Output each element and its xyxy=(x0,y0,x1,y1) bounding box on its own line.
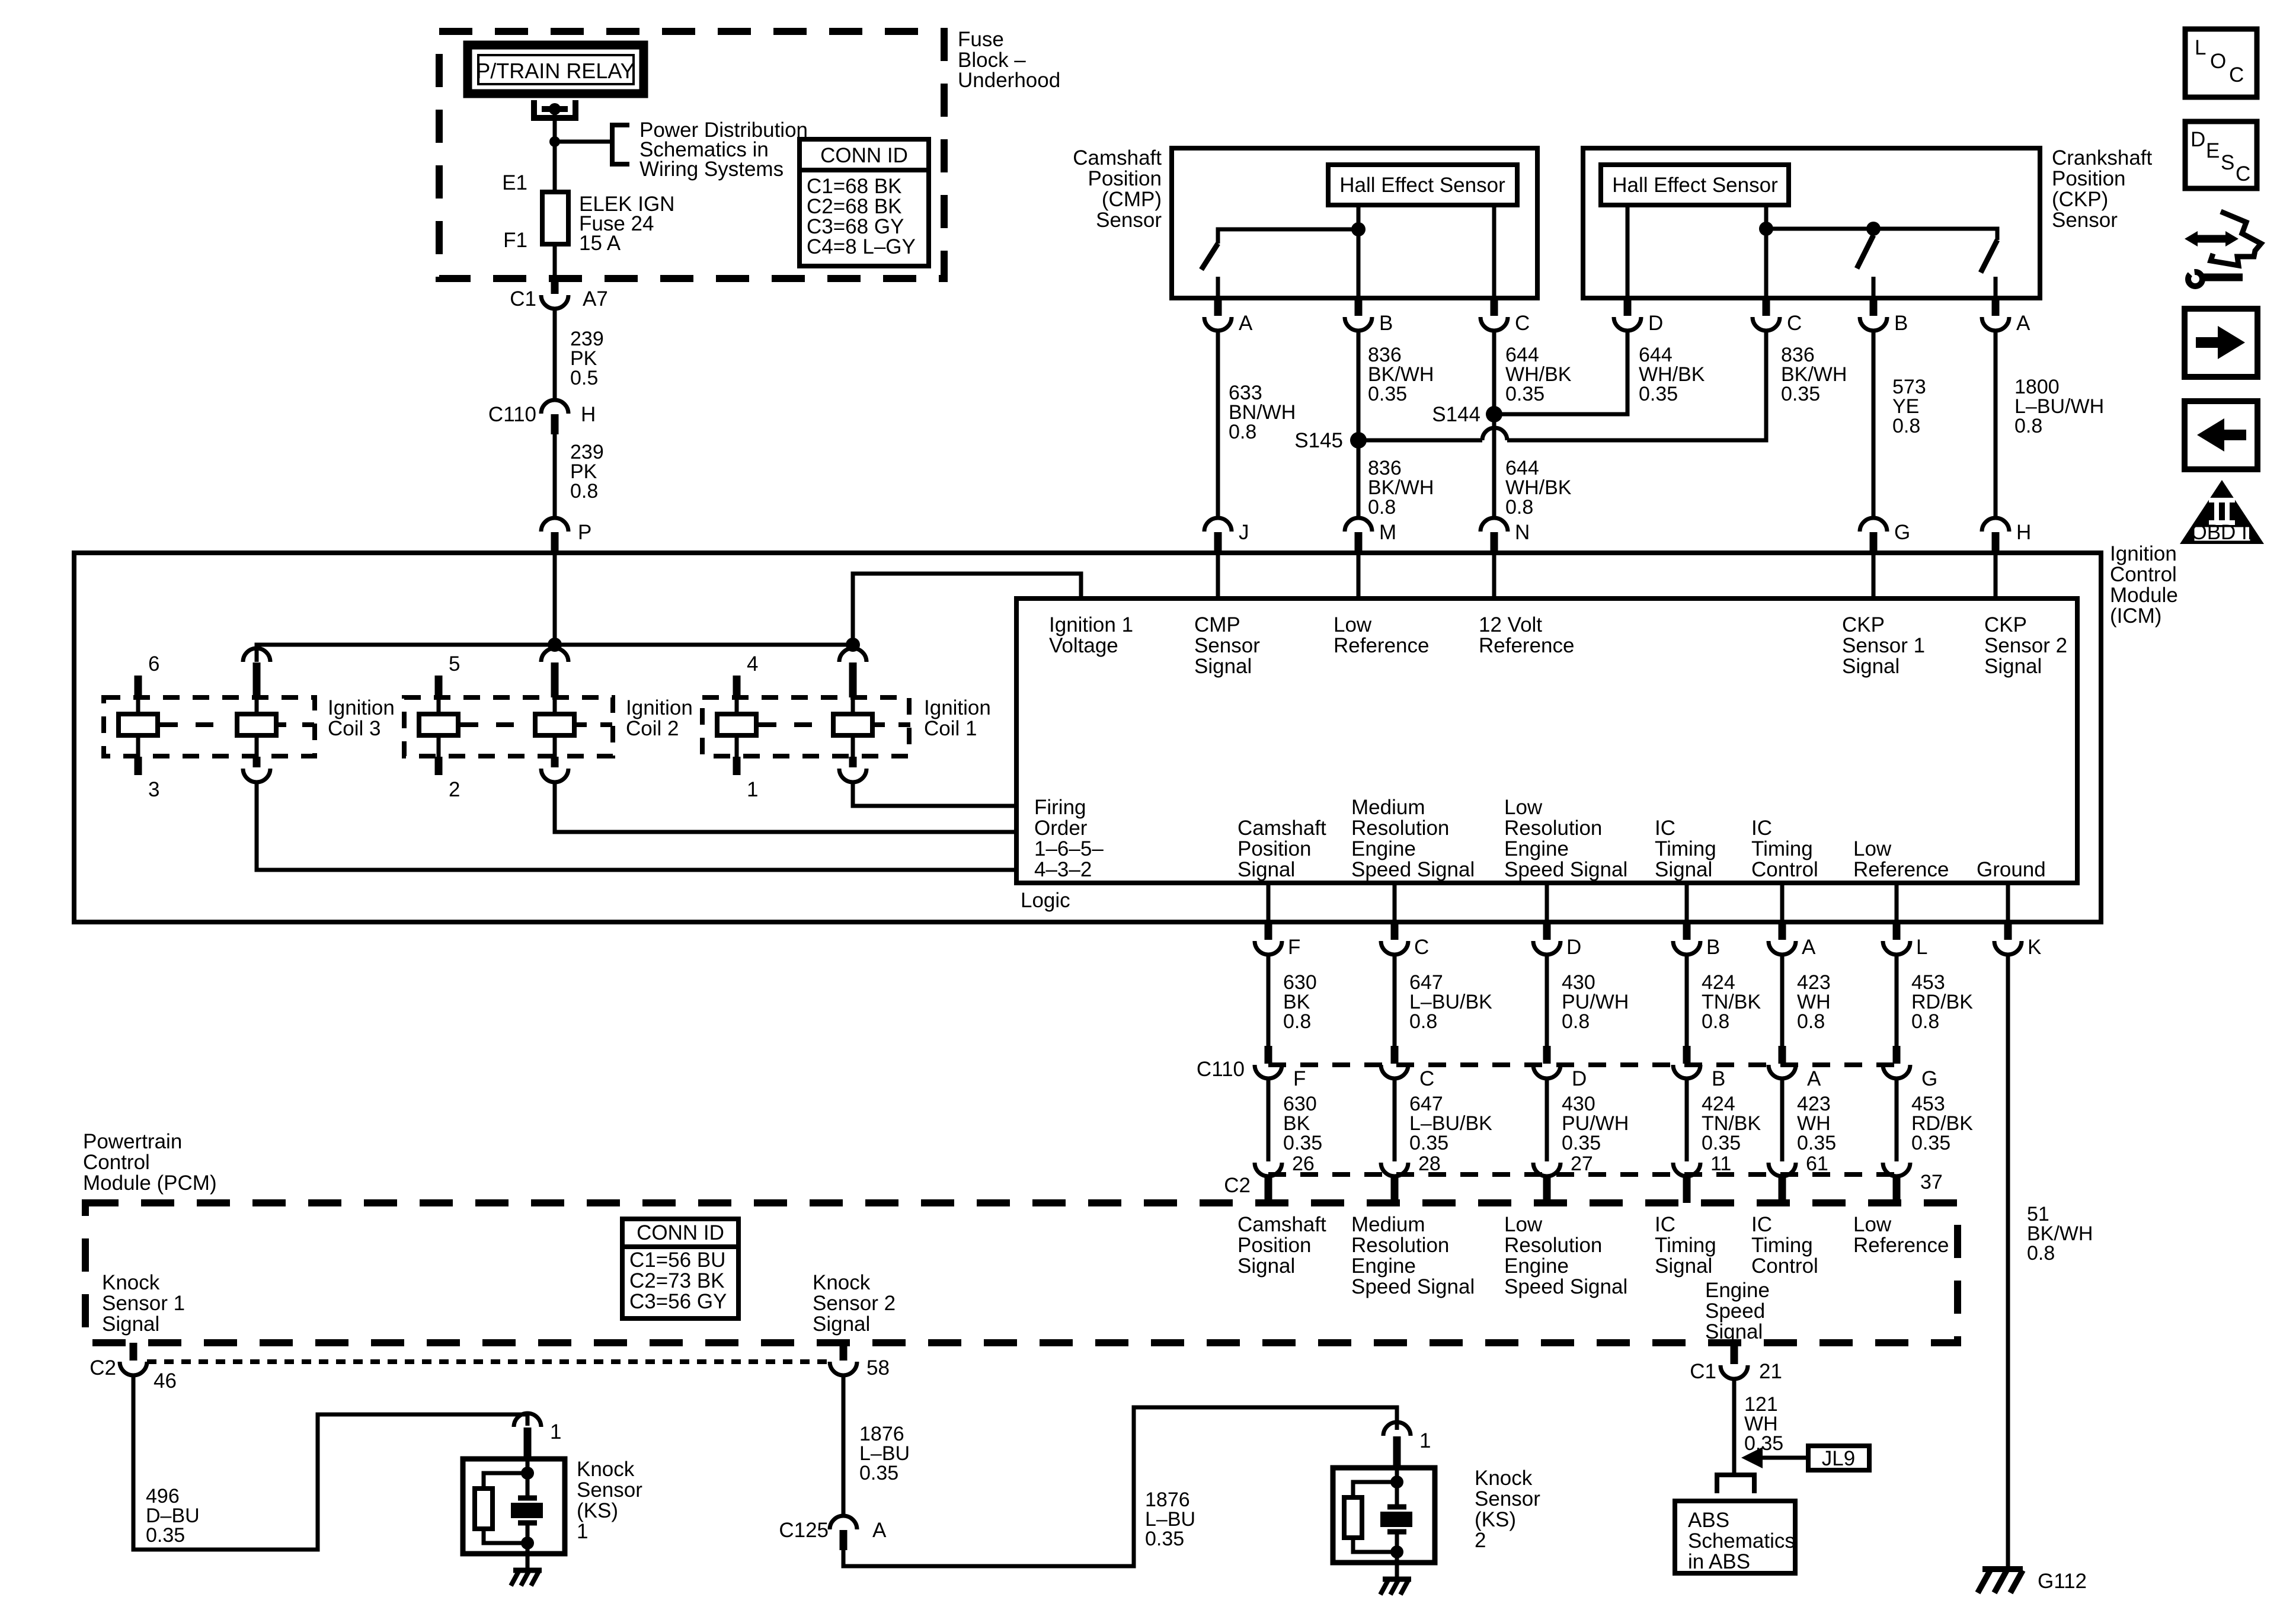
svg-text:0.8: 0.8 xyxy=(2027,1242,2055,1265)
dotted link C2 row bottom xyxy=(147,1359,830,1364)
wire stub G to logic xyxy=(1872,553,1876,598)
KS2 internal bottom node xyxy=(1390,1545,1403,1558)
ignition control module box xyxy=(74,553,2101,922)
svg-text:0.8: 0.8 xyxy=(1702,1010,1729,1033)
svg-text:Signal: Signal xyxy=(1194,655,1252,678)
SECTION: knock sensors xyxy=(89,1343,1540,1595)
svg-text:Wiring Systems: Wiring Systems xyxy=(639,158,784,181)
wire 453 RD/BK 0.8 xyxy=(1895,955,1899,1046)
KS1 ground xyxy=(513,1568,542,1573)
svg-text:Module: Module xyxy=(2110,584,2178,607)
wire logic to pin K xyxy=(2006,883,2010,922)
connector C2 row dashed link xyxy=(1268,1172,1897,1177)
svg-text:Reference: Reference xyxy=(1334,634,1429,657)
svg-text:Underhood: Underhood xyxy=(958,69,1060,92)
CONN ID table PCM xyxy=(622,1219,738,1318)
coil 2 secondary element with connectors xyxy=(541,648,568,662)
svg-text:CONN ID: CONN ID xyxy=(637,1221,724,1244)
svg-text:O: O xyxy=(2210,50,2226,73)
svg-text:G: G xyxy=(1921,1067,1937,1090)
SECTION: ICM outputs to PCM xyxy=(1197,883,2093,1569)
wire coil 1 to logic xyxy=(853,782,1016,806)
svg-text:A: A xyxy=(1802,936,1816,959)
svg-text:A7: A7 xyxy=(583,287,608,311)
ground G112 xyxy=(1982,1566,2023,1572)
svg-text:C: C xyxy=(1515,312,1530,335)
wire 430 PU/WH 0.35 xyxy=(1545,1078,1549,1161)
svg-text:A: A xyxy=(1807,1067,1821,1090)
connector KS2 pin 1 xyxy=(1383,1422,1411,1436)
connector C2 pin 61 xyxy=(1769,1163,1796,1176)
SECTION: fuse block underhood xyxy=(439,28,1060,279)
svg-text:Control: Control xyxy=(83,1151,150,1174)
svg-text:Resolution: Resolution xyxy=(1504,1234,1602,1257)
logic box xyxy=(1016,598,2077,883)
svg-text:Schematics: Schematics xyxy=(1688,1529,1795,1553)
svg-text:Engine: Engine xyxy=(1504,837,1569,860)
icon wrench xyxy=(2201,274,2243,281)
coil 1 link dashes xyxy=(759,722,812,727)
connector C2 pin 46 xyxy=(130,1343,137,1361)
svg-text:0.35: 0.35 xyxy=(1283,1132,1322,1154)
connector pin A xyxy=(1992,300,2000,316)
ABS schematics box xyxy=(1675,1501,1795,1573)
svg-text:CKP: CKP xyxy=(1984,613,2027,636)
svg-text:S144: S144 xyxy=(1432,403,1480,426)
svg-text:ABS: ABS xyxy=(1688,1509,1729,1532)
svg-text:Sensor: Sensor xyxy=(577,1478,642,1502)
wire 239 PK 0.5 xyxy=(553,308,557,399)
connector C2 pin 58 xyxy=(840,1343,848,1361)
coil 2 link dashes xyxy=(461,722,514,727)
wire 644 WH/BK 0.35 pin C to S144 xyxy=(1492,331,1496,414)
svg-text:Hall Effect Sensor: Hall Effect Sensor xyxy=(1612,174,1778,197)
svg-text:C: C xyxy=(1419,1067,1434,1090)
SECTION: splices xyxy=(1204,331,2104,553)
svg-text:IC: IC xyxy=(1655,817,1675,840)
connector pin G xyxy=(1860,518,1887,532)
connector C1 pin A7 xyxy=(551,279,559,294)
svg-text:Resolution: Resolution xyxy=(1504,817,1602,840)
svg-text:Reference: Reference xyxy=(1853,1234,1949,1257)
off page bracket to ABS xyxy=(1717,1475,1754,1493)
svg-text:Position: Position xyxy=(1237,837,1312,860)
svg-text:Sensor 2: Sensor 2 xyxy=(813,1292,896,1315)
svg-text:Engine: Engine xyxy=(1504,1254,1569,1278)
splice S144 xyxy=(1486,406,1502,422)
wire coil 3 to logic xyxy=(257,782,1016,870)
svg-text:C1: C1 xyxy=(1690,1360,1716,1383)
svg-text:P: P xyxy=(578,521,591,544)
wire switch feed CKP xyxy=(1766,229,1997,240)
svg-text:Low: Low xyxy=(1853,1213,1892,1236)
wire 647 L-BU/BK 0.8 xyxy=(1393,955,1397,1046)
svg-text:Fuse: Fuse xyxy=(958,28,1004,51)
crankshaft position sensor box xyxy=(1583,148,2040,298)
svg-text:P/TRAIN RELAY: P/TRAIN RELAY xyxy=(476,59,634,83)
svg-text:CONN ID: CONN ID xyxy=(820,144,908,167)
svg-text:(KS): (KS) xyxy=(577,1499,618,1522)
wire 633 BN/WH 0.8 pin A to J xyxy=(1216,331,1220,518)
svg-text:Resolution: Resolution xyxy=(1351,1234,1449,1257)
svg-text:37: 37 xyxy=(1920,1171,1943,1193)
svg-text:Coil 1: Coil 1 xyxy=(924,717,977,740)
svg-text:Order: Order xyxy=(1034,817,1088,840)
wire pin A stub xyxy=(1994,277,1998,298)
svg-text:Low: Low xyxy=(1504,796,1543,819)
svg-text:G: G xyxy=(1894,521,1910,544)
wire hall pin to C xyxy=(1764,205,1769,298)
wire 496 D-BU 0.35 xyxy=(133,1375,527,1550)
svg-text:A: A xyxy=(1239,312,1253,335)
svg-text:Medium: Medium xyxy=(1351,796,1425,819)
svg-text:B: B xyxy=(1894,312,1908,335)
svg-text:Engine: Engine xyxy=(1351,1254,1416,1278)
svg-text:0.35: 0.35 xyxy=(1505,383,1544,405)
relay K1 P/TRAIN RELAY xyxy=(468,45,644,94)
svg-text:D: D xyxy=(1566,936,1581,959)
wire switch feed xyxy=(1218,229,1358,244)
icon DESC box xyxy=(2185,121,2257,188)
svg-text:OBD II: OBD II xyxy=(2191,521,2253,544)
svg-text:Speed Signal: Speed Signal xyxy=(1351,858,1475,881)
svg-text:21: 21 xyxy=(1759,1360,1782,1383)
connector KS1 pin 1 xyxy=(514,1413,541,1427)
wire hall pin to C xyxy=(1492,205,1496,298)
SECTION: feed wire to ICM xyxy=(488,279,608,553)
wire 453 RD/BK 0.35 xyxy=(1895,1078,1899,1161)
svg-text:0.8: 0.8 xyxy=(1283,1010,1311,1033)
svg-text:0.8: 0.8 xyxy=(2014,415,2042,437)
svg-text:Sensor: Sensor xyxy=(1194,634,1260,657)
svg-text:Timing: Timing xyxy=(1751,837,1813,860)
svg-text:B: B xyxy=(1712,1067,1725,1090)
svg-text:Voltage: Voltage xyxy=(1049,634,1118,657)
svg-text:M: M xyxy=(1379,521,1396,544)
svg-text:0.35: 0.35 xyxy=(1368,383,1407,405)
svg-text:Position: Position xyxy=(1237,1234,1312,1257)
wire stub H to logic xyxy=(1994,553,1998,598)
wire 647 L-BU/BK 0.35 xyxy=(1393,1078,1397,1161)
connector pin D xyxy=(1543,922,1551,940)
connector pin C xyxy=(1763,300,1770,316)
svg-text:K: K xyxy=(2028,936,2041,959)
svg-text:61: 61 xyxy=(1806,1153,1828,1175)
svg-text:0.35: 0.35 xyxy=(1562,1132,1601,1154)
coil 3 dashed box xyxy=(104,697,315,756)
svg-text:(ICM): (ICM) xyxy=(2110,604,2161,628)
connector pin P of ICM xyxy=(541,518,568,532)
svg-text:S: S xyxy=(2221,151,2234,174)
svg-text:E1: E1 xyxy=(502,171,527,194)
svg-text:0.8: 0.8 xyxy=(1562,1010,1590,1033)
svg-text:Control: Control xyxy=(1751,858,1818,881)
svg-text:Knock: Knock xyxy=(1475,1467,1533,1490)
svg-text:Sensor: Sensor xyxy=(2052,209,2118,232)
svg-text:C: C xyxy=(2236,162,2250,185)
CONN ID table fuse block xyxy=(800,139,929,266)
svg-text:0.35: 0.35 xyxy=(1797,1132,1836,1154)
svg-text:0.8: 0.8 xyxy=(1368,496,1396,518)
wire 121 WH 0.35 xyxy=(1732,1379,1737,1475)
svg-text:Signal: Signal xyxy=(1842,655,1900,678)
wire 644 WH/BK 0.8 S144 to N xyxy=(1492,414,1496,518)
svg-text:C: C xyxy=(1787,312,1802,335)
svg-text:Camshaft: Camshaft xyxy=(1237,817,1326,840)
svg-text:(CKP): (CKP) xyxy=(2052,188,2108,211)
svg-text:Sensor: Sensor xyxy=(1096,209,1162,232)
svg-text:Control: Control xyxy=(2110,563,2177,586)
svg-text:Camshaft: Camshaft xyxy=(1073,146,1162,169)
JL9 callout arrow xyxy=(1758,1456,1808,1460)
JL9 box xyxy=(1808,1446,1869,1470)
coil 2 primary element xyxy=(435,676,443,697)
svg-text:Position: Position xyxy=(2052,167,2126,190)
svg-text:IC: IC xyxy=(1751,817,1772,840)
svg-text:Speed Signal: Speed Signal xyxy=(1504,858,1627,881)
connector pin D xyxy=(1624,300,1632,316)
wire 1800 L-BU/WH 0.8 CKP A to H xyxy=(1994,331,1998,518)
svg-text:N: N xyxy=(1515,521,1530,544)
svg-text:26: 26 xyxy=(1292,1153,1315,1175)
node feed coil1 xyxy=(846,638,860,652)
SECTION: ground xyxy=(1978,1569,2087,1593)
svg-text:Coil 3: Coil 3 xyxy=(328,717,380,740)
svg-text:0.8: 0.8 xyxy=(1797,1010,1825,1033)
coil 3 link dashes xyxy=(160,722,213,727)
icon LOC box xyxy=(2185,29,2257,97)
KS2 piezo element xyxy=(1387,1505,1406,1510)
wire coil feed line xyxy=(257,645,853,662)
connector C2 pin 11 xyxy=(1673,1163,1700,1176)
connector pin A xyxy=(1214,300,1222,316)
svg-text:H: H xyxy=(2016,521,2031,544)
wire 424 TN/BK 0.8 xyxy=(1685,955,1689,1046)
svg-text:L: L xyxy=(1916,936,1927,959)
svg-text:IC: IC xyxy=(1655,1213,1675,1236)
svg-text:Sensor 1: Sensor 1 xyxy=(1842,634,1925,657)
svg-text:Speed: Speed xyxy=(1705,1299,1765,1323)
connector C110 pin B xyxy=(1683,1046,1691,1064)
svg-text:0.8: 0.8 xyxy=(1229,421,1256,443)
connector C2 pin 37 xyxy=(1883,1163,1910,1176)
svg-text:Speed Signal: Speed Signal xyxy=(1351,1275,1475,1298)
svg-text:in ABS: in ABS xyxy=(1688,1550,1750,1573)
powertrain control module dashed box xyxy=(85,1203,1958,1343)
svg-text:C110: C110 xyxy=(1197,1058,1245,1081)
svg-text:Coil 2: Coil 2 xyxy=(626,717,679,740)
icon OBD II triangle xyxy=(2180,480,2264,544)
wire stub N to logic xyxy=(1492,553,1496,598)
svg-text:4–3–2: 4–3–2 xyxy=(1034,858,1092,881)
wire 573 YE 0.8 CKP B to G xyxy=(1872,331,1876,518)
svg-text:Signal: Signal xyxy=(1655,1254,1712,1278)
connector C110 pin A xyxy=(1779,1046,1786,1064)
svg-text:Resolution: Resolution xyxy=(1351,817,1449,840)
svg-text:1: 1 xyxy=(550,1420,561,1443)
svg-text:A: A xyxy=(2016,312,2030,335)
switch blade A xyxy=(1981,240,1997,273)
svg-text:Signal: Signal xyxy=(813,1313,870,1336)
svg-text:1: 1 xyxy=(747,778,758,801)
wire logic to pin A xyxy=(1780,883,1785,922)
svg-text:11: 11 xyxy=(1710,1153,1731,1175)
svg-text:D: D xyxy=(2191,128,2205,151)
coil 1 primary element xyxy=(733,676,741,697)
svg-text:0.8: 0.8 xyxy=(1892,415,1920,437)
wire stub M to logic xyxy=(1357,553,1361,598)
connector pin L xyxy=(1893,922,1901,940)
svg-text:E: E xyxy=(2206,139,2220,162)
svg-text:Ignition: Ignition xyxy=(626,696,693,719)
svg-text:L: L xyxy=(2195,36,2206,59)
connector C110 pin G xyxy=(1893,1046,1901,1064)
wire 1876 L-BU 0.35 upper xyxy=(842,1375,846,1516)
SECTION: icons xyxy=(2180,29,2264,544)
SECTION: ICM module xyxy=(74,542,2178,922)
icon right arrow box xyxy=(2185,309,2257,377)
connector pin F xyxy=(1265,922,1272,940)
svg-text:Medium: Medium xyxy=(1351,1213,1425,1236)
wire 644 WH/BK 0.35 pin D to S144 xyxy=(1494,331,1627,414)
svg-text:0.8: 0.8 xyxy=(570,480,598,502)
svg-text:Reference: Reference xyxy=(1479,634,1574,657)
svg-text:C2: C2 xyxy=(89,1356,116,1379)
svg-text:F: F xyxy=(1288,936,1300,959)
wire relay to fuse xyxy=(553,109,557,192)
svg-text:F: F xyxy=(1293,1067,1306,1090)
hall effect sensor U2 xyxy=(1601,165,1789,205)
svg-text:Signal: Signal xyxy=(1237,858,1295,881)
svg-text:Signal: Signal xyxy=(1237,1254,1295,1278)
connector pin B xyxy=(1355,300,1363,316)
note bracket xyxy=(612,125,629,164)
wire logic to pin C xyxy=(1393,883,1397,922)
wire hall pin to D xyxy=(1626,205,1630,298)
wire pin B stub xyxy=(1872,277,1876,298)
node switch B xyxy=(1866,222,1881,236)
svg-text:0.8: 0.8 xyxy=(1409,1010,1437,1033)
switch blade CMP xyxy=(1201,244,1218,270)
KS1 piezo element xyxy=(518,1496,537,1501)
wire 424 TN/BK 0.35 xyxy=(1685,1078,1689,1161)
svg-text:C2=73 BK: C2=73 BK xyxy=(629,1269,725,1292)
svg-text:C: C xyxy=(1414,936,1429,959)
svg-text:1–6–5–: 1–6–5– xyxy=(1034,837,1104,860)
svg-text:A: A xyxy=(872,1519,887,1542)
SECTION: CMP sensor xyxy=(1073,146,1537,335)
connector C110 row dashed link xyxy=(1268,1062,1897,1067)
connector C110 pin C xyxy=(1391,1046,1399,1064)
svg-text:Knock: Knock xyxy=(813,1271,871,1294)
svg-text:0.5: 0.5 xyxy=(570,367,598,389)
wire 836 BK/WH 0.35 CKP pin C to S145 with hop xyxy=(1507,331,1766,440)
svg-text:58: 58 xyxy=(866,1356,890,1379)
connector pin B xyxy=(1683,922,1691,940)
switch blade B xyxy=(1857,235,1873,268)
SECTION: CKP sensor xyxy=(1583,146,2153,335)
svg-text:Knock: Knock xyxy=(577,1458,635,1481)
svg-text:JL9: JL9 xyxy=(1822,1447,1855,1470)
wire 239 PK 0.8 xyxy=(553,434,557,518)
svg-text:B: B xyxy=(1706,936,1720,959)
wire coil 2 to logic xyxy=(555,782,1016,832)
KS1 internal bottom node xyxy=(521,1537,534,1550)
wire branch to note xyxy=(555,140,612,144)
svg-text:Timing: Timing xyxy=(1655,1234,1716,1257)
svg-text:CKP: CKP xyxy=(1842,613,1885,636)
connector pin H xyxy=(1982,518,2009,532)
ignition coil 3 xyxy=(104,648,395,801)
connector C2 pin 28 xyxy=(1381,1163,1408,1176)
svg-text:Low: Low xyxy=(1334,613,1372,636)
splice S145 xyxy=(1350,432,1367,449)
svg-text:Powertrain: Powertrain xyxy=(83,1130,182,1153)
wire hall pin to B xyxy=(1357,205,1361,298)
svg-text:Ignition 1: Ignition 1 xyxy=(1049,613,1133,636)
wire logic to pin F xyxy=(1267,883,1271,922)
svg-text:Reference: Reference xyxy=(1853,858,1949,881)
fuse block underhood dashed box xyxy=(439,31,944,279)
svg-text:2: 2 xyxy=(449,778,460,801)
svg-text:Knock: Knock xyxy=(102,1271,160,1294)
KS2 resistor R2 xyxy=(1353,1482,1397,1497)
svg-text:C1=56 BU: C1=56 BU xyxy=(629,1249,725,1272)
svg-text:Timing: Timing xyxy=(1751,1234,1813,1257)
node on C wire xyxy=(1759,222,1773,236)
svg-text:Engine: Engine xyxy=(1705,1279,1770,1302)
fuse F24 ELEK IGN 15 A xyxy=(542,192,568,244)
svg-text:1: 1 xyxy=(1419,1429,1431,1452)
junction node xyxy=(549,136,560,147)
svg-text:H: H xyxy=(581,403,596,426)
SECTION: PCM xyxy=(83,1130,1958,1343)
svg-text:1: 1 xyxy=(577,1520,588,1543)
icon vehicle outline xyxy=(2211,212,2261,265)
knock sensor KS2 box xyxy=(1333,1468,1435,1563)
KS2 internal top node xyxy=(1395,1468,1399,1505)
connector pin C xyxy=(1391,922,1399,940)
svg-text:Position: Position xyxy=(1088,167,1162,190)
wire 836 BK/WH 0.35 pin B to S145 xyxy=(1357,331,1361,440)
svg-text:C1: C1 xyxy=(510,287,536,311)
connector C110 pin D xyxy=(1543,1046,1551,1064)
wire 51 BK/WH 0.8 ground wire xyxy=(2006,955,2010,1569)
wire ignition 1 voltage xyxy=(853,574,1081,645)
svg-text:Module (PCM): Module (PCM) xyxy=(83,1172,217,1195)
svg-text:C: C xyxy=(2229,63,2244,87)
svg-text:C125: C125 xyxy=(779,1519,829,1542)
connector pin N xyxy=(1480,518,1508,532)
svg-text:0.35: 0.35 xyxy=(1639,383,1678,405)
wire P into feed xyxy=(553,553,557,645)
ignition coil 1 xyxy=(702,648,991,801)
coil 2 dashed box xyxy=(404,697,613,756)
svg-text:C2: C2 xyxy=(1224,1174,1251,1197)
svg-text:Signal: Signal xyxy=(1655,858,1712,881)
connector C2 pin 26 xyxy=(1255,1163,1282,1176)
icon vehicle double arrow xyxy=(2195,235,2228,243)
svg-text:2: 2 xyxy=(1475,1529,1486,1552)
svg-text:Firing: Firing xyxy=(1034,796,1086,819)
coil 1 secondary element with connectors xyxy=(839,648,866,662)
svg-text:0.35: 0.35 xyxy=(1911,1132,1950,1154)
coil 3 secondary element with connectors xyxy=(243,648,270,662)
connector C2 pin 27 xyxy=(1533,1163,1560,1176)
connector pin C xyxy=(1491,300,1498,316)
svg-text:0.35: 0.35 xyxy=(1702,1132,1741,1154)
svg-text:Signal: Signal xyxy=(1705,1320,1763,1343)
